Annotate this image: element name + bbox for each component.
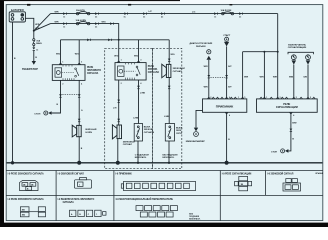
node battery junction bbox=[33, 30, 35, 32]
svg-text:I-9 ВЫКЛЮЧАТЕЛЬ ЗВУКОВОГО: I-9 ВЫКЛЮЧАТЕЛЬ ЗВУКОВОГО bbox=[58, 198, 95, 201]
svg-text:6: 6 bbox=[229, 97, 230, 99]
svg-text:ДИАГНОСТИЧЕСКИЙ: ДИАГНОСТИЧЕСКИЙ bbox=[190, 42, 213, 45]
dashed enclosure right bbox=[153, 48, 182, 168]
svg-text:W/R: W/R bbox=[204, 86, 209, 88]
connector on line A x65 bbox=[63, 12, 66, 15]
svg-text:4-9 МНОГОФУНКЦИОНАЛЬНЫЙ ПЕРЕК: 4-9 МНОГОФУНКЦИОНАЛЬНЫЙ ПЕРЕКЛЮЧАТЕЛЬ bbox=[115, 198, 173, 201]
connector on horn C drop bbox=[168, 59, 171, 62]
legend note r2c3 bbox=[189, 213, 201, 220]
svg-text:2: 2 bbox=[121, 83, 122, 85]
svg-text:1: 1 bbox=[96, 214, 97, 216]
svg-text:СИГНАЛА: СИГНАЛА bbox=[63, 201, 75, 204]
svg-text:W/R: W/R bbox=[244, 77, 249, 79]
connector on line A x145 bbox=[143, 12, 147, 15]
alarm relay label bbox=[276, 102, 298, 109]
svg-text:W/R: W/R bbox=[35, 24, 40, 26]
svg-text:G/B: G/B bbox=[303, 77, 307, 79]
wire relay2 output to horn switch 1 bbox=[138, 80, 140, 124]
wire battery negative down to ground bus bbox=[12, 22, 14, 163]
connector on relay1 ground wire bbox=[59, 94, 62, 97]
svg-text:L/HB: L/HB bbox=[140, 92, 145, 94]
svg-text:ВЫКЛ.: ВЫКЛ. bbox=[144, 126, 151, 128]
diagnostic connector arrow up bbox=[207, 56, 212, 60]
wire rail drop to receiver bbox=[242, 52, 244, 99]
svg-text:РЕЛЕ: РЕЛЕ bbox=[87, 67, 94, 69]
ground bus bbox=[7, 162, 323, 164]
svg-text:10A HORN: 10A HORN bbox=[76, 19, 87, 22]
wire relay1 output to burglar horn bbox=[78, 80, 80, 125]
wire drop to horn relay2 pin R bbox=[138, 40, 140, 63]
svg-text:L/HB: L/HB bbox=[133, 118, 138, 120]
horn C label bbox=[173, 67, 185, 73]
scan black left edge bbox=[0, 0, 4, 227]
receiver pin chevrons bbox=[208, 97, 244, 114]
svg-text:ЗВУКОВОЙ: ЗВУКОВОЙ bbox=[123, 140, 135, 143]
wire diagonal to line A bbox=[34, 14, 51, 31]
legend connector r1c2 bbox=[75, 178, 92, 189]
svg-text:КРЫША: КРЫША bbox=[316, 172, 324, 175]
wire line A drop to alarm rail bbox=[277, 14, 279, 52]
battery bbox=[9, 12, 25, 22]
relay U1 horn relay box bbox=[52, 65, 85, 81]
horn switch 2 label bbox=[176, 127, 183, 134]
wire rail drop to alarm relay pin2 bbox=[277, 52, 279, 99]
connector on line A x216 bbox=[214, 12, 218, 15]
svg-text:3B1: 3B1 bbox=[22, 209, 25, 211]
connector on switch2 wire bbox=[168, 86, 171, 89]
immobilizer arrow bbox=[194, 128, 198, 132]
switch1 variant label bbox=[135, 153, 149, 159]
svg-text:СИГНАЛ: СИГНАЛ bbox=[173, 70, 183, 73]
svg-text:4: 4 bbox=[140, 82, 141, 85]
legend connector r2c1 bbox=[20, 207, 45, 217]
svg-text:4: 4 bbox=[229, 114, 230, 117]
node ground switch2 bbox=[168, 162, 170, 164]
svg-text:4: 4 bbox=[81, 82, 82, 85]
connector code labels top lines bbox=[63, 15, 242, 28]
wire horn B to ground bus bbox=[117, 139, 119, 163]
horn switch 1 box bbox=[134, 124, 142, 142]
node feeder junction bbox=[118, 39, 120, 41]
svg-text:ЗВУКОВ.: ЗВУКОВ. bbox=[144, 129, 153, 131]
wire rail drop to alarm relay pin1 bbox=[263, 52, 265, 99]
svg-text:СИГНАЛ: СИГНАЛ bbox=[123, 143, 133, 146]
svg-text:ПРИЕМНИК: ПРИЕМНИК bbox=[216, 104, 234, 108]
svg-text:РАЗЪЕМ: РАЗЪЕМ bbox=[196, 45, 206, 48]
burglar horn label bbox=[86, 128, 97, 134]
wire switch2 to alarm relay bbox=[307, 65, 309, 99]
wire drop to horn C bbox=[168, 40, 170, 65]
start circuit circle symbol bbox=[225, 37, 229, 41]
node ground switch1 bbox=[137, 162, 139, 164]
wire relay1 coil to ground bbox=[52, 80, 61, 113]
svg-text:MAIN: MAIN bbox=[36, 42, 42, 45]
svg-text:W/G: W/G bbox=[171, 54, 176, 56]
wire connector to generator bbox=[33, 51, 35, 61]
svg-text:I-9 ЗВУКОВОЙ СИГНАЛ: I-9 ЗВУКОВОЙ СИГНАЛ bbox=[267, 173, 294, 176]
relay U1 pin 2 chevron bbox=[78, 63, 81, 65]
svg-text:W/G: W/G bbox=[134, 55, 139, 57]
legend connector r1c5 bbox=[283, 179, 301, 191]
svg-text:W/R: W/R bbox=[260, 77, 265, 79]
svg-text:СТАРТ: СТАРТ bbox=[223, 34, 231, 37]
svg-text:3: 3 bbox=[81, 62, 82, 64]
frame tick mark 1 bbox=[27, 4, 30, 6]
frame tick mark 3 bbox=[230, 4, 233, 5]
legend grid bbox=[6, 171, 323, 221]
svg-text:1: 1 bbox=[79, 185, 80, 187]
wire to generator connector bbox=[33, 46, 35, 48]
relay U2 label bbox=[148, 66, 160, 74]
svg-text:3: 3 bbox=[280, 97, 281, 99]
svg-text:ЗВУКОВОЙ: ЗВУКОВОЙ bbox=[173, 67, 185, 70]
svg-text:ИММОБИЛАЙЗЕР: ИММОБИЛАЙЗЕР bbox=[186, 140, 206, 143]
svg-text:W/R: W/R bbox=[273, 77, 278, 79]
svg-text:I-9 РЕЛЕ СИГНАЛИЗАЦИИ: I-9 РЕЛЕ СИГНАЛИЗАЦИИ bbox=[222, 173, 252, 176]
svg-text:B/Y: B/Y bbox=[228, 86, 232, 88]
scan black top-left sliver bbox=[0, 0, 180, 1]
connector on line A x163 bbox=[161, 12, 165, 15]
svg-text:I-9 ПРИЕМНИК: I-9 ПРИЕМНИК bbox=[115, 174, 132, 176]
svg-text:2: 2 bbox=[210, 97, 211, 99]
svg-text:I-9 РЕЛЕ ЗВУКОВОГО СИГНАЛА: I-9 РЕЛЕ ЗВУКОВОГО СИГНАЛА bbox=[8, 198, 44, 201]
wire receiver to immobilizer bbox=[196, 110, 203, 127]
svg-text:2: 2 bbox=[62, 83, 63, 85]
connector on line A x126 bbox=[124, 12, 128, 18]
wire diagnostic to receiver bbox=[208, 60, 210, 99]
svg-text:W/R: W/R bbox=[204, 66, 209, 68]
relay U1 pin comb marks bbox=[63, 65, 74, 80]
svg-text:L/C: L/C bbox=[192, 11, 196, 13]
wire burglar horn to ground bus bbox=[78, 137, 80, 163]
svg-text:СИГНАЛА: СИГНАЛА bbox=[144, 131, 155, 134]
wire start to receiver bbox=[226, 46, 228, 99]
node ground horn A bbox=[77, 161, 81, 165]
horn switch 2 box bbox=[165, 124, 174, 142]
connector on horn B wire bbox=[117, 100, 120, 103]
node ground receiver bbox=[225, 161, 229, 165]
relay U1 label bbox=[87, 67, 101, 75]
receiver pin number labels bbox=[210, 97, 245, 117]
relay U2 pin 1 chevron bbox=[117, 61, 120, 63]
connector on horn B wire lower bbox=[117, 119, 120, 122]
svg-text:I-9 ЗВУКОВОЙ СИГНАЛ: I-9 ЗВУКОВОЙ СИГНАЛ bbox=[58, 173, 85, 176]
horn switch 1 label bbox=[144, 126, 155, 133]
svg-text:W/G: W/G bbox=[102, 22, 107, 24]
connector on alarm ground wire bbox=[290, 129, 293, 132]
alarm switch bar bbox=[288, 52, 314, 54]
alarm switch contact 2 arrow bbox=[306, 60, 311, 64]
fuse 30A BTN on line A bbox=[76, 12, 89, 15]
wire drop to horn relay2 pin L bbox=[118, 40, 120, 63]
immobilizer circle bbox=[194, 132, 199, 137]
svg-text:СТОП: СТОП bbox=[271, 151, 278, 153]
svg-text:СИГНАЛА: СИГНАЛА bbox=[87, 72, 99, 75]
svg-text:БЕЗОПАСН.: БЕЗОПАСН. bbox=[163, 156, 175, 159]
switch2 variant label bbox=[163, 154, 178, 159]
fuse 10A HORN on line B bbox=[76, 22, 89, 25]
legend connector r2c2 bbox=[70, 210, 107, 216]
svg-text:СИГНАЛИЗАЦИИ: СИГНАЛИЗАЦИИ bbox=[276, 105, 298, 109]
svg-text:W/R: W/R bbox=[55, 12, 60, 14]
connector on line B x112 bbox=[110, 22, 114, 25]
ground stop symbol right bbox=[271, 149, 288, 154]
svg-text:РЕЛЕ: РЕЛЕ bbox=[148, 66, 155, 68]
legend connector r1c4 bbox=[235, 176, 252, 190]
legend connector r1c1 bbox=[20, 181, 39, 191]
diagnostic connector label bbox=[190, 42, 213, 48]
diagnostic connector circle symbol bbox=[207, 50, 211, 54]
connector on horn A wire upper bbox=[78, 94, 81, 97]
connector on feeder x110 bbox=[108, 39, 112, 42]
connector link dashed bbox=[62, 93, 77, 95]
fuse 10A ROOM on line A bbox=[222, 12, 234, 15]
svg-text:5: 5 bbox=[296, 97, 297, 99]
svg-text:L/HB: L/HB bbox=[164, 116, 169, 118]
svg-text:W/G: W/G bbox=[56, 53, 61, 55]
svg-text:B/W: B/W bbox=[292, 123, 296, 125]
node rail junction 1 bbox=[263, 51, 265, 53]
svg-text:2: 2 bbox=[310, 97, 311, 99]
svg-text:I-9 РЕЛЕ ЗВУКОВОГО СИГНАЛА: I-9 РЕЛЕ ЗВУКОВОГО СИГНАЛА bbox=[8, 173, 44, 176]
relay U2 pin 2 chevron bbox=[137, 61, 140, 63]
alarm relay box bbox=[257, 99, 318, 112]
svg-text:L/H: L/H bbox=[113, 108, 117, 110]
legend connector r2c3 bbox=[136, 206, 177, 217]
wire drop to horn relay1 pin R bbox=[78, 40, 80, 65]
svg-text:3B2: 3B2 bbox=[22, 215, 25, 217]
relay U1 pin 1 chevron bbox=[59, 63, 62, 65]
svg-text:БЕЗОПАСН.: БЕЗОПАСН. bbox=[189, 217, 201, 220]
wire relay2 output to horn B bbox=[118, 80, 120, 125]
relay U2 horn relay box bbox=[115, 63, 146, 80]
wire bus line A bbox=[51, 13, 278, 15]
relay U2 pin comb marks bbox=[126, 63, 135, 80]
frame tick mark 2 bbox=[128, 4, 131, 6]
alarm switch contact 1 arrow bbox=[292, 60, 297, 64]
wire switch1 to alarm relay bbox=[293, 65, 295, 99]
generator terminal triangle bbox=[32, 61, 36, 65]
connector on diagnostic wire bbox=[207, 75, 210, 78]
legend connector r1c3 bbox=[121, 181, 195, 190]
svg-text:БЕЗОПАСН.: БЕЗОПАСН. bbox=[135, 156, 147, 159]
connector on generator wire bbox=[32, 47, 35, 50]
scan black bottom edge bbox=[0, 223, 328, 227]
svg-text:1: 1 bbox=[121, 60, 122, 62]
svg-text:ЗВУКОВ.: ЗВУКОВ. bbox=[148, 69, 158, 71]
wire switch1 to ground bus bbox=[137, 141, 139, 163]
svg-text:ЗВУКОВОГО: ЗВУКОВОГО bbox=[87, 70, 101, 72]
connector on horn A wire lower bbox=[78, 119, 81, 122]
svg-text:W/B: W/B bbox=[289, 77, 294, 79]
node ground horn B bbox=[116, 161, 120, 165]
horn C speaker bbox=[162, 64, 171, 78]
svg-text:ЗВУК.: ЗВУК. bbox=[176, 130, 182, 132]
svg-text:5: 5 bbox=[244, 97, 245, 99]
receiver box bbox=[203, 99, 247, 112]
svg-text:РЕЛЕ: РЕЛЕ bbox=[283, 102, 290, 106]
svg-text:1: 1 bbox=[238, 97, 239, 99]
wire receiver ground bbox=[226, 112, 228, 163]
wire alarm power rail bbox=[243, 51, 278, 53]
alarm relay pin chevrons bbox=[260, 97, 315, 114]
connector on switch1 wire bbox=[137, 86, 140, 89]
connector on line B x97 bbox=[95, 22, 99, 25]
svg-text:10A ROOM: 10A ROOM bbox=[221, 9, 232, 12]
svg-text:1: 1 bbox=[266, 97, 267, 99]
wire drop to horn relay1 pin L bbox=[60, 40, 62, 65]
legend header r2c2 bbox=[58, 198, 95, 204]
fusible link 30A bbox=[33, 39, 35, 46]
start circuit arrow down bbox=[224, 42, 229, 47]
wire switch2 to ground bus bbox=[168, 141, 170, 163]
relay U1 pin number labels bbox=[62, 62, 82, 86]
wire horn C to horn switch 2 bbox=[168, 78, 170, 124]
wire battery positive to junction bbox=[25, 18, 33, 31]
alarm switch contact 1 bbox=[291, 55, 296, 60]
wire bus line B bbox=[51, 24, 119, 40]
svg-text:L/C: L/C bbox=[149, 11, 153, 13]
horn B label bbox=[123, 140, 135, 146]
svg-text:BURGLAR: BURGLAR bbox=[86, 128, 97, 131]
wire alarm relay ground bbox=[288, 112, 291, 151]
svg-text:W/G: W/G bbox=[114, 55, 119, 57]
wire diagonal to line B bbox=[34, 24, 51, 31]
svg-text:СИГН.: СИГН. bbox=[176, 133, 183, 135]
connector on line A x97 bbox=[95, 12, 99, 15]
svg-text:4: 4 bbox=[293, 114, 294, 117]
alarm switch contact 2 bbox=[306, 55, 311, 60]
svg-text:ВЫКЛ.: ВЫКЛ. bbox=[176, 127, 183, 129]
connector link dashed bbox=[210, 77, 225, 79]
node ground battery bbox=[11, 161, 14, 164]
horn B speaker bbox=[112, 125, 121, 139]
node rail junction 2 bbox=[277, 51, 279, 53]
svg-text:СТОП: СТОП bbox=[34, 114, 41, 116]
alarm switch label bbox=[288, 43, 307, 49]
alarm relay pin number labels bbox=[266, 97, 311, 117]
svg-text:1: 1 bbox=[62, 62, 63, 64]
svg-text:W/R: W/R bbox=[35, 28, 40, 30]
connector on feeder x89 bbox=[87, 39, 91, 42]
svg-text:СИГНАЛИЗАЦИИ: СИГНАЛИЗАЦИИ bbox=[288, 46, 307, 49]
wire junction to fusible link bbox=[33, 31, 35, 39]
svg-text:30A BTN: 30A BTN bbox=[76, 9, 85, 12]
ground G103 stop symbol bbox=[34, 111, 51, 116]
svg-text:HORN: HORN bbox=[86, 132, 93, 134]
relay U2 pin number labels bbox=[121, 60, 142, 86]
svg-text:ГЕНЕРАТОР: ГЕНЕРАТОР bbox=[22, 67, 38, 71]
svg-text:СИГНАЛА: СИГНАЛА bbox=[148, 71, 160, 74]
dashed enclosure multifunction switch left bbox=[105, 48, 153, 168]
connector on line A x241 bbox=[239, 12, 243, 15]
svg-text:W/G: W/G bbox=[75, 53, 80, 55]
svg-text:ВЫКЛЮЧАТЕЛЬ: ВЫКЛЮЧАТЕЛЬ bbox=[288, 43, 306, 46]
wire feeder line bbox=[61, 39, 170, 41]
burglar horn speaker bbox=[72, 125, 81, 137]
svg-text:3: 3 bbox=[140, 60, 141, 62]
svg-text:B/Y: B/Y bbox=[228, 66, 232, 68]
connector on line B x65 bbox=[63, 22, 66, 25]
connector on start wire bbox=[225, 75, 228, 78]
